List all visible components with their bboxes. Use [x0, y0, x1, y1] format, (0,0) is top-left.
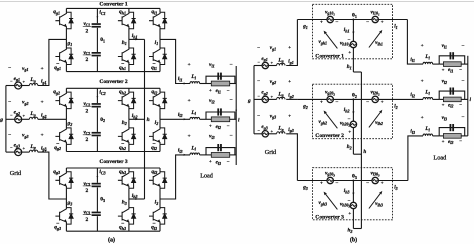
wire: common load bus l (a)	[235, 66, 237, 165]
svg-text:qh1: qh1	[119, 9, 126, 15]
wire: jog from h bus to h_3	[353, 228, 361, 230]
inductor L_l of load branch 3 (b)	[423, 134, 433, 136]
wire: converter 2 dc-link capacitor branch	[96, 88, 98, 103]
capacitor of load branch 2 (b)	[450, 88, 455, 95]
svg-text:ql3: ql3	[151, 169, 157, 175]
wire: converter 2 leg h verticals	[128, 88, 130, 92]
svg-text:l2: l2	[155, 120, 159, 126]
wire: grid row 1 to converter 1 (b)	[286, 20, 297, 66]
svg-text:Converter 3: Converter 3	[315, 214, 344, 220]
svg-text:(b): (b)	[350, 237, 357, 244]
svg-text:qg1: qg1	[54, 65, 61, 71]
svg-text:ig2: ig2	[288, 93, 293, 99]
svg-text:−: −	[459, 103, 462, 108]
load resistance / emf box e_l1 (a)	[206, 83, 211, 85]
svg-text:h1: h1	[122, 40, 127, 46]
svg-text:qh2: qh2	[119, 145, 126, 151]
svg-text:+: +	[381, 100, 384, 105]
svg-text:+: +	[288, 114, 291, 119]
svg-text:el2: el2	[448, 103, 453, 108]
inductor L_l of load branch 2 (b)	[423, 98, 433, 100]
svg-text:vg1: vg1	[270, 45, 276, 51]
transistor qbar_h3 (bottom IGBT of leg h, converter 3)	[118, 208, 136, 225]
wire: grid row 1 to converter 1 (a)	[38, 39, 67, 85]
svg-text:vgh2: vgh2	[319, 119, 328, 125]
svg-text:vl1: vl1	[442, 43, 447, 49]
wire: parallel RC top branch with capacitor (load 2, a)	[206, 112, 235, 119]
transistor qbar_g3 (bottom IGBT of leg g, converter 3)	[55, 208, 73, 225]
svg-text:eg3: eg3	[261, 124, 267, 130]
svg-text:Ll: Ll	[424, 54, 430, 60]
load resistance / emf box e_l3 (a)	[206, 154, 211, 156]
svg-text:Load: Load	[433, 155, 447, 162]
svg-text:vg2: vg2	[22, 100, 28, 106]
svg-text:g: g	[247, 98, 251, 104]
svg-text:ql2: ql2	[151, 145, 157, 151]
inductor L_g of phase 2 (b)	[269, 98, 277, 100]
svg-text:eg1: eg1	[261, 56, 267, 62]
capacitor C1 upper half (v_C1/2)	[92, 23, 101, 27]
svg-text:vl1: vl1	[209, 62, 215, 68]
transistor q_l2 (top IGBT of leg l, converter 2)	[149, 92, 167, 109]
ac source e_g2 (a)	[6, 118, 15, 120]
svg-text:−: −	[8, 66, 11, 72]
svg-text:ql3: ql3	[151, 225, 157, 231]
svg-text:iC3: iC3	[99, 169, 105, 175]
faint scan line along top edge	[0, 0, 474, 2]
wire: parallel RC top branch with capacitor (load 1, b)	[439, 56, 465, 64]
svg-text:ih1: ih1	[132, 33, 138, 39]
svg-text:il2: il2	[410, 92, 415, 98]
svg-text:h: h	[147, 117, 150, 123]
load resistance / emf box e_l3 (b)	[439, 135, 443, 137]
wire: converter 2 bottom dc rail	[66, 151, 160, 153]
wire: grid row 2 to converter 2 (a)	[38, 118, 67, 120]
svg-text:l2: l2	[394, 104, 397, 110]
svg-text:qh3: qh3	[119, 225, 126, 231]
wire: converter 2 top dc rail	[66, 87, 160, 89]
svg-text:eg1: eg1	[14, 76, 20, 82]
wire: converter 1 dc-link capacitor branch	[96, 8, 98, 23]
svg-text:Lg: Lg	[29, 77, 35, 83]
inductor L_l of load branch 1 (b)	[423, 62, 433, 64]
svg-text:vl3: vl3	[209, 134, 215, 140]
wire: converter 3 leg l verticals	[159, 168, 161, 172]
junction dot at node 0_3 (b)	[352, 180, 354, 182]
transistor q_l3 (top IGBT of leg l, converter 3)	[149, 172, 167, 189]
wire: grid row 3 to converter 3 (a)	[38, 152, 67, 199]
wire: jog from h_1 to h bus	[353, 71, 361, 73]
svg-text:g1: g1	[302, 24, 308, 30]
svg-text:−: −	[348, 38, 351, 43]
svg-text:l3: l3	[155, 200, 159, 206]
svg-text:+: +	[209, 89, 212, 94]
svg-text:−: −	[257, 79, 260, 85]
transistor q_g3 (top IGBT of leg g, converter 3)	[55, 172, 73, 189]
svg-text:−: −	[459, 140, 462, 145]
svg-text:ih3: ih3	[344, 188, 350, 194]
ac source e_g1 (b)	[254, 65, 262, 67]
svg-text:qg1: qg1	[53, 9, 60, 15]
capacitor of load branch 1 (b)	[450, 52, 455, 59]
wire: converter 3 (b) top wire g_3 to l_3	[297, 180, 327, 182]
svg-text:qg2: qg2	[53, 89, 60, 95]
ac source e_g3 (b)	[254, 133, 262, 135]
svg-text:el1: el1	[216, 88, 221, 94]
inductor L_g of phase 2 (a)	[22, 118, 30, 120]
svg-text:2: 2	[85, 57, 88, 63]
transistor qbar_l3 (bottom IGBT of leg l, converter 3)	[149, 208, 167, 225]
svg-text:+: +	[288, 46, 291, 51]
svg-text:el2: el2	[216, 124, 221, 130]
wire: converter 1 top dc rail	[66, 7, 160, 9]
transistor qbar_l2 (bottom IGBT of leg l, converter 2)	[149, 128, 167, 144]
wire: h_2 to h-bus	[129, 118, 145, 120]
wire: converter 1 leg h verticals	[128, 8, 130, 12]
svg-text:vlh2: vlh2	[375, 120, 383, 126]
wire: parallel RC top branch with capacitor (load 3, a)	[206, 148, 235, 155]
svg-text:+: +	[41, 100, 44, 106]
voltage arrow v_gh2 (b)	[326, 113, 338, 128]
voltage arrow v_lh2 (b)	[369, 113, 380, 128]
svg-text:Grid: Grid	[10, 170, 22, 177]
svg-text:l1: l1	[155, 40, 159, 46]
wire: converter 1 (b) top wire g_1 to l_1	[297, 19, 327, 21]
controlled source v_h202 on middle branch (b)	[350, 121, 356, 127]
load resistance / emf box e_l2 (a)	[206, 118, 211, 120]
transistor q_g2 (top IGBT of leg g, converter 2)	[55, 92, 73, 109]
svg-text:+: +	[320, 100, 323, 105]
svg-text:2: 2	[85, 217, 88, 223]
svg-text:ih3: ih3	[132, 193, 138, 199]
svg-text:−: −	[336, 99, 339, 105]
svg-text:qh2: qh2	[119, 89, 126, 95]
voltage arrow v_gh1 (b)	[326, 33, 338, 48]
svg-text:01: 01	[100, 37, 105, 43]
svg-text:qh1: qh1	[119, 65, 126, 71]
controlled source v_h303 on middle branch (b)	[350, 202, 356, 208]
svg-text:−: −	[230, 133, 233, 139]
svg-text:+: +	[348, 212, 351, 217]
svg-text:+: +	[421, 116, 424, 121]
wire: converter 3 dc-link capacitor branch	[96, 168, 98, 183]
svg-text:g2: g2	[302, 104, 308, 110]
svg-text:el3: el3	[448, 140, 453, 145]
svg-text:+: +	[442, 139, 445, 144]
svg-text:03: 03	[100, 197, 105, 203]
load resistance / emf box e_l1 (b)	[439, 63, 443, 65]
capacitor of load branch 3 (b)	[450, 124, 455, 131]
junction dot at node 0_2 (b)	[352, 98, 354, 100]
svg-text:vg1: vg1	[22, 66, 28, 72]
svg-text:g: g	[0, 117, 3, 123]
svg-text:−: −	[227, 89, 230, 94]
svg-text:Grid: Grid	[265, 149, 277, 156]
wire: converter 3 leg h verticals	[128, 168, 130, 172]
wire: converter 2 leg g verticals	[65, 88, 67, 92]
svg-text:il3: il3	[410, 129, 415, 135]
voltage arrow v_lh1 (b)	[369, 33, 380, 48]
svg-text:h3: h3	[348, 228, 353, 234]
svg-text:qg3: qg3	[53, 169, 60, 175]
svg-text:−: −	[336, 180, 339, 186]
svg-text:Ll: Ll	[190, 74, 196, 80]
svg-text:−: −	[348, 199, 351, 204]
converter 3 (b): dashed box	[313, 168, 393, 220]
controlled source v_l101 (b)	[372, 16, 378, 22]
svg-text:−: −	[8, 100, 11, 106]
svg-text:Lg: Lg	[277, 126, 283, 132]
svg-text:+: +	[209, 125, 212, 130]
svg-text:+: +	[421, 79, 424, 84]
svg-text:−: −	[336, 19, 339, 25]
svg-text:il1: il1	[410, 57, 415, 63]
svg-text:vlh3: vlh3	[375, 201, 383, 207]
ac source e_g3 (a)	[6, 151, 15, 153]
svg-text:Ll: Ll	[424, 90, 430, 96]
svg-text:Lg: Lg	[29, 111, 35, 117]
wire: l_1 output of converter 1 to load branch 1 (a)	[160, 39, 190, 83]
svg-text:+: +	[41, 66, 44, 72]
inductor L_g of phase 3 (a)	[22, 151, 30, 153]
converter 2 (b): dashed box	[313, 84, 393, 139]
wire: jog from h_2 to h bus	[353, 153, 361, 155]
svg-text:2: 2	[85, 137, 88, 143]
wire: middle branch 0_3 to h_3 (b)	[352, 181, 354, 203]
transistor qbar_h2 (bottom IGBT of leg h, converter 2)	[118, 128, 136, 144]
svg-text:il1: il1	[178, 76, 183, 82]
svg-text:vgh1: vgh1	[319, 39, 328, 45]
svg-text:02: 02	[352, 93, 357, 99]
wire: common load bus l (b)	[467, 56, 469, 136]
controlled source v_g303 (b)	[327, 177, 333, 183]
ac source e_g2 (b)	[254, 98, 262, 100]
transistor qbar_g2 (bottom IGBT of leg g, converter 2)	[55, 128, 73, 144]
svg-text:Converter 3: Converter 3	[99, 159, 127, 165]
controlled source v_g202 (b)	[327, 96, 333, 102]
converter 1 (b): dashed box	[313, 4, 393, 59]
transistor qbar_g1 (bottom IGBT of leg g, converter 1)	[55, 48, 73, 65]
svg-text:eg3: eg3	[14, 142, 20, 148]
wire: common bus h (a) connecting h1,h2,h3	[144, 39, 146, 199]
voltage arrow v_gh3 (b)	[326, 194, 338, 209]
svg-text:l3: l3	[394, 185, 397, 191]
svg-text:g2: g2	[67, 121, 73, 127]
svg-text:−: −	[230, 62, 233, 68]
svg-text:vg2: vg2	[270, 79, 276, 85]
junction dot at node 0_1 (b)	[352, 19, 354, 21]
inductor L_l of load branch 2 (a)	[190, 117, 200, 119]
wire: parallel RC top branch with capacitor (load 2, b)	[439, 91, 465, 99]
capacitor of load branch 3 (a)	[217, 144, 222, 151]
svg-text:+: +	[421, 44, 424, 49]
svg-text:+: +	[442, 67, 445, 72]
svg-text:2: 2	[85, 188, 88, 194]
svg-text:−: −	[257, 45, 260, 51]
transistor qbar_h1 (bottom IGBT of leg h, converter 1)	[118, 48, 136, 65]
svg-text:+: +	[320, 181, 323, 186]
svg-text:−: −	[348, 118, 351, 123]
svg-text:−: −	[227, 125, 230, 130]
svg-text:h2: h2	[347, 144, 352, 150]
wire: converter 1 bottom dc rail	[66, 71, 160, 73]
load resistance / emf box e_l2 (b)	[439, 98, 443, 100]
wire: middle branch 0_1 to h_1 (b)	[352, 20, 354, 42]
svg-text:01: 01	[352, 13, 357, 19]
svg-text:ih2: ih2	[132, 113, 138, 119]
svg-text:−: −	[462, 115, 465, 121]
svg-text:Ll: Ll	[424, 126, 430, 132]
wire: grid common bus g (b)	[253, 66, 255, 134]
svg-text:−: −	[462, 43, 465, 49]
svg-text:ig1: ig1	[288, 59, 293, 65]
svg-text:el1: el1	[448, 68, 453, 73]
svg-text:02: 02	[100, 117, 105, 123]
svg-text:vg3: vg3	[270, 113, 276, 119]
wire: converter 2 leg l verticals	[159, 88, 161, 92]
ac source e_g1 (a)	[6, 85, 15, 87]
inductor L_g of phase 1 (b)	[269, 65, 277, 67]
wire: converter 1 leg l verticals	[159, 8, 161, 12]
svg-text:eg2: eg2	[261, 90, 267, 96]
wire: grid row 2 to converter 2 (b)	[286, 98, 297, 100]
svg-text:−: −	[459, 68, 462, 73]
svg-text:il2: il2	[178, 112, 183, 118]
controlled source v_l202 (b)	[372, 96, 378, 102]
svg-text:+: +	[381, 181, 384, 186]
svg-text:Converter 1: Converter 1	[315, 53, 344, 59]
transistor q_l1 (top IGBT of leg l, converter 1)	[149, 12, 167, 29]
svg-text:g3: g3	[302, 185, 308, 191]
wire: l_1 output to load branch 1 (b)	[407, 20, 423, 65]
wire: h_3 to h-bus	[129, 198, 145, 200]
transistor q_g1 (top IGBT of leg g, converter 1)	[55, 12, 73, 29]
wire: grid common bus g (a)	[5, 86, 7, 153]
svg-text:+: +	[381, 20, 384, 25]
wire: converter 2 (b) top wire g_2 to l_2	[297, 98, 327, 100]
controlled source v_l303 (b)	[372, 177, 378, 183]
svg-text:−: −	[8, 132, 11, 138]
wire: converter 3 top dc rail	[66, 167, 160, 169]
svg-text:−: −	[230, 98, 233, 104]
svg-text:qg3: qg3	[54, 225, 61, 231]
capacitor C2 lower half (v_C2/2)	[92, 132, 101, 136]
svg-text:(a): (a)	[108, 237, 115, 244]
capacitor C3 lower half (v_C3/2)	[92, 212, 101, 216]
svg-text:eg2: eg2	[14, 110, 20, 116]
svg-text:Lg: Lg	[277, 91, 283, 97]
inductor L_l of load branch 3 (a)	[190, 153, 200, 155]
wire: l_3 output of converter 3 to load branch 3 (a)	[160, 155, 190, 199]
svg-text:l1: l1	[394, 24, 397, 30]
svg-text:vl2: vl2	[209, 98, 215, 104]
svg-text:iC2: iC2	[99, 90, 105, 96]
svg-text:+: +	[41, 133, 44, 139]
wire: l_2 output of converter 2 to load branch 2 (a)	[160, 118, 190, 120]
svg-text:+: +	[209, 160, 212, 165]
wire: parallel RC top branch with capacitor (load 3, b)	[439, 128, 465, 136]
svg-text:ig3: ig3	[288, 127, 293, 133]
svg-text:+: +	[348, 131, 351, 136]
svg-text:h3: h3	[122, 200, 127, 206]
svg-text:+: +	[442, 102, 445, 107]
svg-text:Lg: Lg	[29, 144, 35, 150]
svg-text:−: −	[257, 113, 260, 119]
capacitor of load branch 2 (a)	[217, 108, 222, 115]
svg-text:h2: h2	[122, 120, 127, 126]
wire: converter 3 leg g verticals	[65, 168, 67, 172]
capacitor C3 upper half (v_C3/2)	[92, 183, 101, 187]
svg-text:ql1: ql1	[151, 9, 157, 15]
svg-text:Ll: Ll	[190, 110, 196, 116]
transistor q_h3 (top IGBT of leg h, converter 3)	[118, 172, 136, 189]
svg-text:ql2: ql2	[151, 89, 157, 95]
svg-text:il3: il3	[178, 148, 183, 154]
svg-text:iC1: iC1	[99, 10, 105, 16]
svg-text:qh3: qh3	[119, 169, 126, 175]
svg-text:−: −	[227, 160, 230, 165]
voltage arrow v_lh3 (b)	[369, 194, 380, 209]
svg-text:Converter 2: Converter 2	[315, 133, 344, 139]
wire: grid row 3 to converter 3 (b)	[286, 134, 297, 181]
capacitor C1 lower half (v_C1/2)	[92, 52, 101, 56]
svg-text:h1: h1	[347, 64, 352, 70]
svg-text:03: 03	[352, 174, 357, 180]
svg-text:vl3: vl3	[442, 115, 447, 121]
svg-text:−: −	[462, 78, 465, 84]
wire: converter 3 bottom dc rail	[66, 230, 160, 232]
svg-text:+: +	[320, 20, 323, 25]
controlled source v_g101 (b)	[327, 16, 333, 22]
svg-text:ih1: ih1	[344, 27, 350, 33]
wire: h_1 to h-bus	[129, 38, 145, 40]
svg-text:vgh3: vgh3	[319, 200, 328, 206]
svg-text:Load: Load	[200, 173, 214, 180]
wire: parallel RC top branch with capacitor (load 1, a)	[206, 76, 235, 83]
svg-text:vg3: vg3	[22, 133, 28, 139]
svg-text:−: −	[366, 99, 369, 105]
svg-text:+: +	[348, 51, 351, 56]
svg-text:ih2: ih2	[344, 107, 350, 113]
svg-text:Converter 1: Converter 1	[99, 2, 127, 8]
transistor q_h1 (top IGBT of leg h, converter 1)	[118, 12, 136, 29]
svg-text:+: +	[188, 62, 191, 68]
svg-text:el3: el3	[216, 160, 221, 166]
svg-text:vlh1: vlh1	[375, 40, 383, 46]
svg-text:ql1: ql1	[151, 65, 157, 71]
controlled source v_h101 on middle branch (b)	[350, 41, 356, 47]
svg-text:g3: g3	[67, 200, 73, 206]
inductor L_l of load branch 1 (a)	[190, 82, 200, 84]
capacitor C2 upper half (v_C2/2)	[92, 103, 101, 107]
svg-text:−: −	[366, 19, 369, 25]
transistor qbar_l1 (bottom IGBT of leg l, converter 1)	[149, 48, 167, 65]
svg-text:2: 2	[85, 109, 88, 115]
capacitor of load branch 1 (a)	[217, 73, 222, 80]
wire: common bus h (b) vertical (runs at x=361.4 between converters)	[360, 72, 362, 229]
svg-text:+: +	[188, 134, 191, 140]
svg-text:−: −	[366, 180, 369, 186]
wire: middle branch 0_2 to h_2 (b)	[352, 99, 354, 121]
svg-text:qg2: qg2	[54, 145, 61, 151]
wire: converter 1 leg g verticals	[65, 8, 67, 12]
svg-text:2: 2	[85, 29, 88, 35]
svg-text:Ll: Ll	[190, 145, 196, 151]
inductor L_g of phase 3 (b)	[269, 133, 277, 135]
svg-text:Lg: Lg	[277, 57, 283, 63]
inductor L_g of phase 1 (a)	[22, 85, 30, 87]
svg-text:h: h	[363, 149, 366, 155]
